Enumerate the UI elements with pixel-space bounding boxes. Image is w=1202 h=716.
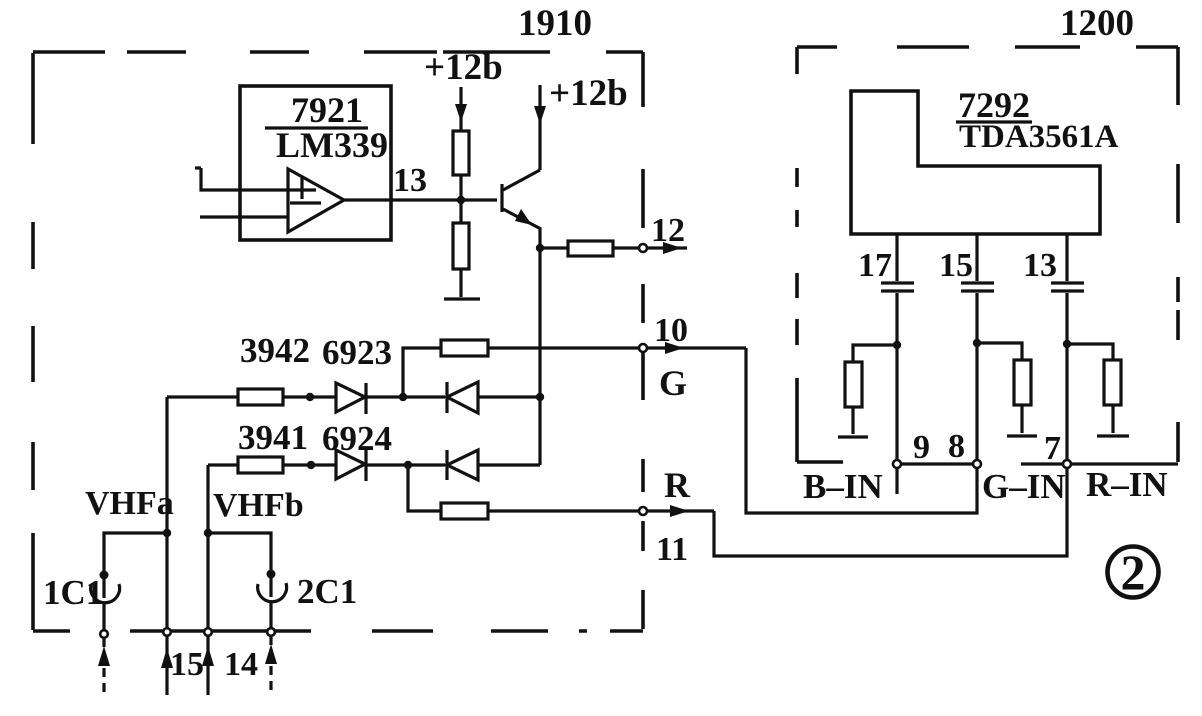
svg-text:11: 11 (656, 531, 688, 568)
svg-text:TDA3561A: TDA3561A (959, 119, 1119, 155)
svg-text:7921: 7921 (291, 90, 363, 130)
svg-text:R: R (664, 465, 691, 505)
svg-text:2: 2 (1121, 544, 1146, 600)
svg-text:G: G (659, 363, 687, 403)
svg-text:13: 13 (393, 162, 427, 199)
svg-text:15: 15 (939, 247, 973, 284)
svg-text:VHFb: VHFb (213, 487, 304, 524)
svg-text:3942: 3942 (240, 331, 310, 370)
svg-text:1910: 1910 (518, 3, 592, 44)
svg-text:1200: 1200 (1060, 3, 1134, 44)
svg-text:LM339: LM339 (276, 125, 388, 165)
svg-text:12: 12 (651, 212, 685, 249)
svg-text:3941: 3941 (238, 418, 308, 457)
svg-text:+12b: +12b (549, 73, 628, 114)
svg-text:17: 17 (858, 247, 892, 284)
svg-text:6923: 6923 (322, 333, 392, 372)
svg-text:8: 8 (948, 428, 965, 465)
svg-text:10: 10 (654, 312, 688, 349)
svg-text:9: 9 (913, 429, 930, 466)
svg-text:13: 13 (1023, 247, 1057, 284)
svg-text:1C1: 1C1 (43, 573, 103, 612)
svg-text:R–IN: R–IN (1086, 465, 1168, 504)
svg-text:6924: 6924 (322, 419, 392, 458)
svg-text:7: 7 (1044, 430, 1061, 467)
svg-text:+12b: +12b (424, 47, 503, 88)
svg-text:14: 14 (224, 646, 258, 683)
svg-text:VHFa: VHFa (85, 485, 174, 522)
svg-text:15: 15 (170, 646, 204, 683)
svg-text:B–IN: B–IN (803, 467, 883, 506)
svg-text:2C1: 2C1 (297, 572, 357, 611)
svg-text:G–IN: G–IN (982, 467, 1066, 506)
